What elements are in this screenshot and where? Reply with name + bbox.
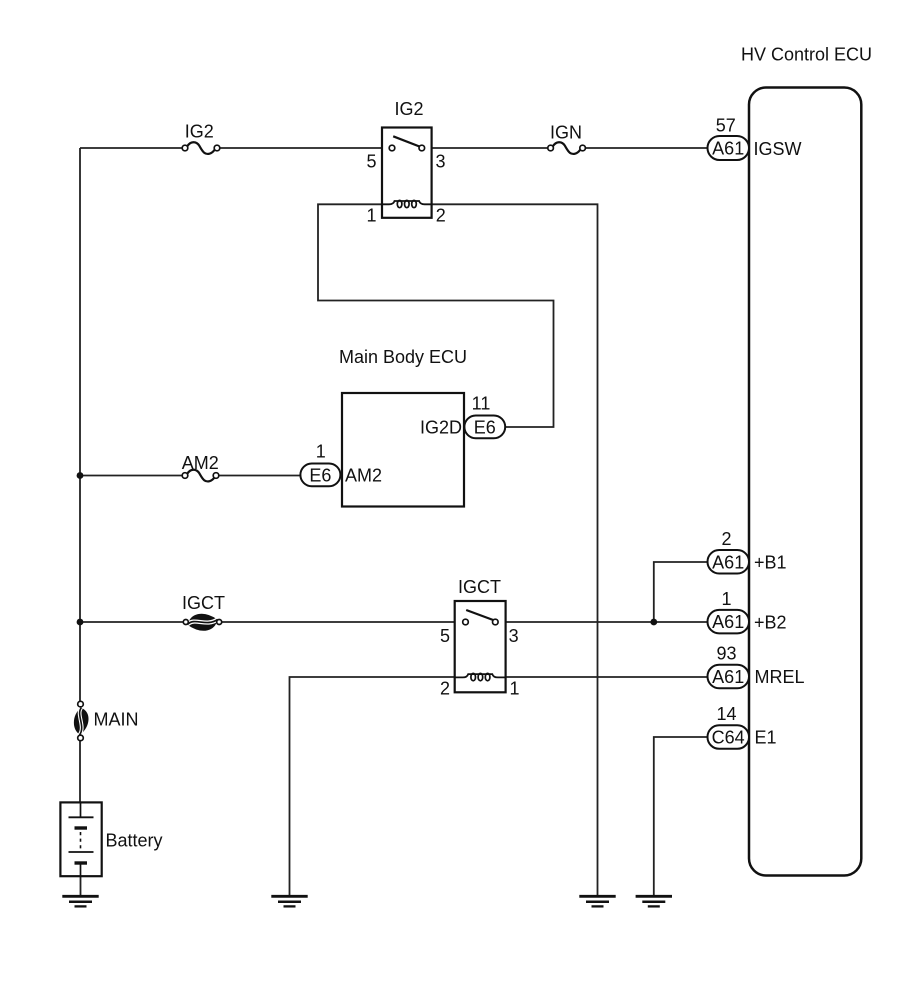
wire: IGCT row, bus to fusible link IGCT — [80, 621, 186, 623]
fuse AM2 — [182, 470, 219, 482]
Main Body ECU box — [342, 393, 464, 507]
pin 11 label (E6 IG2D) — [472, 394, 491, 414]
pin 3 (relay IG2) — [436, 152, 446, 172]
wire: AM2 row, fuse AM2 to connector E6 AM2 — [216, 475, 300, 477]
wire: relay IG2 coil pin 1 to connector E6 IG2D — [318, 204, 554, 427]
svg-text:AM2: AM2 — [182, 453, 219, 473]
pin 2 (relay IG2) — [436, 205, 446, 225]
svg-text:3: 3 — [436, 152, 446, 172]
ground (E1) — [636, 896, 672, 906]
wire: relay IGCT coil pin 1 to connector A61 MREL — [506, 676, 708, 678]
svg-text:HV Control ECU: HV Control ECU — [741, 45, 872, 65]
svg-text:+B2: +B2 — [754, 613, 787, 633]
svg-text:+B1: +B1 — [754, 553, 787, 573]
HV Control ECU label — [741, 45, 872, 65]
label IG2 (relay) — [394, 99, 423, 119]
svg-text:MREL: MREL — [755, 667, 805, 687]
node: junction bus / IGCT row — [77, 619, 84, 626]
fuse IG2 — [182, 142, 220, 154]
wire: IGSW row, fuse IGN to connector A61 IGSW — [583, 147, 708, 149]
svg-text:A61: A61 — [712, 667, 744, 687]
wire: IGCT row, relay IGCT pin 3 to connector A61 +B2 — [506, 621, 708, 623]
pin 1 (relay IGCT) — [510, 679, 520, 699]
svg-text:57: 57 — [716, 116, 736, 136]
svg-text:93: 93 — [716, 644, 736, 664]
connector A61 +B1 (pin 2) — [708, 550, 750, 574]
relay IG2 — [382, 128, 432, 218]
svg-text:5: 5 — [366, 152, 376, 172]
svg-text:MAIN: MAIN — [94, 710, 139, 730]
label IGN (fuse) — [550, 122, 582, 142]
svg-text:5: 5 — [440, 626, 450, 646]
svg-text:E1: E1 — [755, 728, 777, 748]
wire: branch to connector A61 +B1 — [654, 562, 708, 622]
wire: IGSW row, relay IG2 to fuse IGN — [432, 147, 551, 149]
label IG2 (fuse) — [185, 122, 214, 142]
svg-text:1: 1 — [316, 442, 326, 462]
pin 5 (relay IGCT) — [440, 626, 450, 646]
label +B2 — [754, 613, 787, 633]
svg-text:AM2: AM2 — [345, 465, 382, 485]
svg-text:1: 1 — [366, 205, 376, 225]
pin 2 label (+B1) — [721, 529, 731, 549]
node: junction bus / AM2 row — [77, 472, 84, 479]
label +B1 — [754, 553, 787, 573]
ground (battery) — [62, 896, 98, 906]
wire: bus below MAIN link to battery — [79, 741, 81, 803]
label AM2 (Main Body ECU) — [345, 465, 382, 485]
pin 2 (relay IGCT) — [440, 679, 450, 699]
label IGSW — [754, 139, 802, 159]
svg-text:11: 11 — [472, 394, 491, 414]
svg-text:A61: A61 — [712, 139, 744, 159]
wire: connector C64 E1 down to ground — [654, 737, 708, 896]
wire: IGSW row, fuse IG2 to relay IG2 — [217, 147, 382, 149]
ground (relay IGCT coil) — [271, 896, 307, 906]
connector A61 IGSW (pin 57) — [708, 136, 750, 160]
svg-text:IGN: IGN — [550, 122, 582, 142]
pin 1 label (E6 AM2) — [316, 442, 326, 462]
svg-text:E6: E6 — [309, 465, 331, 485]
svg-text:3: 3 — [509, 626, 519, 646]
ground (relay IG2 coil) — [579, 896, 615, 906]
wire: relay IG2 coil pin 2 down to ground — [432, 204, 598, 896]
wire: AM2 row, bus to fuse AM2 — [80, 475, 185, 477]
svg-text:IG2: IG2 — [394, 99, 423, 119]
svg-text:E6: E6 — [474, 417, 496, 437]
connector E6 IG2D (pin 11) — [464, 416, 505, 439]
pin 93 label (MREL) — [716, 644, 736, 664]
svg-text:2: 2 — [440, 679, 450, 699]
svg-text:Main Body ECU: Main Body ECU — [339, 347, 467, 367]
wire: battery negative to ground — [80, 876, 82, 896]
label IGCT (relay) — [458, 577, 501, 597]
svg-text:14: 14 — [716, 704, 736, 724]
relay IGCT — [455, 601, 506, 692]
label AM2 (fuse) — [182, 453, 219, 473]
pin 1 label (+B2) — [721, 589, 731, 609]
connector C64 E1 (pin 14) — [708, 725, 750, 749]
wire: relay IGCT coil pin 2 down to ground — [290, 677, 455, 896]
connector A61 MREL (pin 93) — [708, 665, 750, 689]
svg-text:2: 2 — [436, 205, 446, 225]
connector E6 AM2 (pin 1) — [300, 464, 340, 487]
label IG2D (Main Body ECU) — [420, 417, 462, 437]
svg-text:Battery: Battery — [106, 831, 163, 851]
svg-text:IGCT: IGCT — [458, 577, 501, 597]
fuse IGN — [548, 142, 586, 154]
label MAIN (fusible link) — [94, 710, 139, 730]
svg-text:1: 1 — [510, 679, 520, 699]
svg-text:A61: A61 — [712, 612, 744, 632]
svg-text:2: 2 — [721, 529, 731, 549]
wire: IGCT row, fusible link to relay IGCT — [219, 621, 455, 623]
pin 5 (relay IG2) — [366, 152, 376, 172]
wire: IGSW row, bus to fuse IG2 — [80, 147, 185, 149]
pin 3 (relay IGCT) — [509, 626, 519, 646]
label IGCT (fusible link) — [182, 593, 225, 613]
fusible link IGCT — [183, 614, 221, 630]
label Battery — [106, 831, 163, 851]
pin 57 label — [716, 116, 736, 136]
svg-text:C64: C64 — [712, 728, 745, 748]
svg-text:IG2D: IG2D — [420, 417, 462, 437]
HV Control ECU box — [749, 88, 861, 876]
battery — [60, 802, 101, 876]
Main Body ECU label — [339, 347, 467, 367]
pin 14 label (E1) — [716, 704, 736, 724]
node: junction +B1 branch / +B2 row — [650, 619, 657, 626]
svg-text:IGSW: IGSW — [754, 139, 802, 159]
svg-text:A61: A61 — [712, 552, 744, 572]
svg-text:IGCT: IGCT — [182, 593, 225, 613]
label MREL — [755, 667, 805, 687]
pin 1 (relay IG2) — [366, 205, 376, 225]
svg-text:IG2: IG2 — [185, 122, 214, 142]
fusible link MAIN — [74, 701, 88, 740]
connector A61 +B2 (pin 1) — [708, 610, 750, 634]
label E1 — [755, 728, 777, 748]
svg-text:1: 1 — [721, 589, 731, 609]
wire: left battery bus vertical — [79, 148, 81, 701]
